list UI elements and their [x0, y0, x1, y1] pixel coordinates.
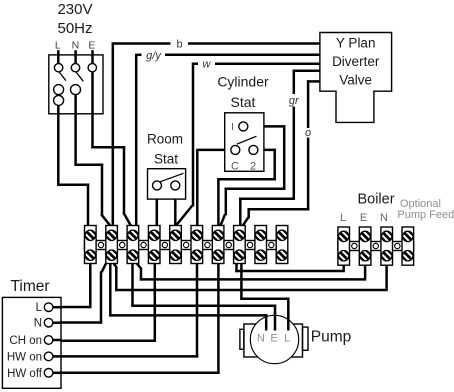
svg-text:Timer: Timer [10, 278, 49, 295]
svg-text:L: L [284, 333, 290, 345]
svg-text:Pump Feed: Pump Feed [397, 209, 454, 221]
svg-text:Cylinder: Cylinder [217, 74, 269, 90]
svg-text:L: L [340, 212, 346, 224]
svg-text:Stat: Stat [231, 94, 256, 110]
svg-text:g/y: g/y [146, 50, 162, 62]
svg-text:o: o [305, 127, 311, 139]
svg-text:Stat: Stat [154, 152, 178, 167]
svg-text:HW on: HW on [7, 351, 42, 363]
svg-text:Diverter: Diverter [332, 54, 380, 69]
svg-text:L: L [55, 40, 61, 52]
svg-text:N: N [34, 318, 42, 330]
svg-text:Room: Room [147, 132, 183, 147]
svg-text:Pump: Pump [311, 329, 352, 346]
svg-text:L: L [36, 302, 43, 314]
svg-text:N: N [72, 40, 80, 52]
svg-text:C: C [231, 161, 239, 173]
svg-text:Boiler: Boiler [357, 192, 394, 208]
svg-text:E: E [270, 333, 277, 345]
svg-text:I: I [231, 121, 234, 133]
svg-text:230V: 230V [57, 1, 92, 18]
svg-text:CH on: CH on [9, 335, 42, 347]
svg-text:50Hz: 50Hz [57, 20, 92, 37]
svg-text:N: N [257, 333, 265, 345]
svg-text:HW off: HW off [7, 368, 43, 380]
svg-text:Y Plan: Y Plan [336, 35, 376, 50]
svg-text:E: E [360, 212, 367, 224]
svg-text:N: N [380, 212, 388, 224]
svg-text:E: E [88, 40, 95, 52]
svg-text:w: w [203, 59, 212, 71]
svg-text:Valve: Valve [339, 73, 372, 88]
svg-text:gr: gr [289, 95, 300, 107]
svg-text:2: 2 [250, 161, 256, 173]
svg-text:b: b [176, 38, 182, 50]
